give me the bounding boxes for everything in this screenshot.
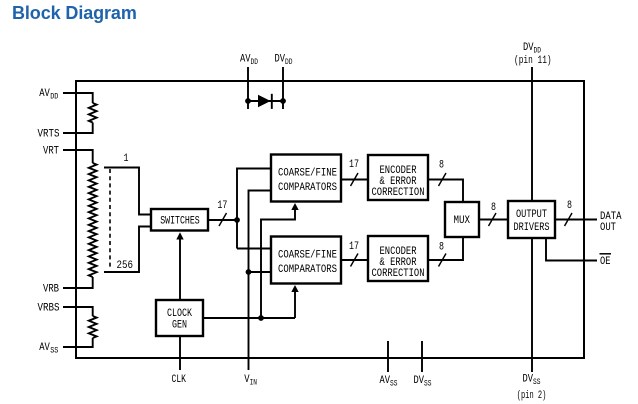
svg-text:COARSE/FINE: COARSE/FINE (278, 250, 337, 262)
svg-text:IN: IN (250, 379, 258, 388)
svg-text:VRT: VRT (43, 146, 59, 158)
chip outline (76, 81, 584, 358)
encoder U5 (368, 155, 428, 200)
arrow clock comp2 (291, 285, 298, 292)
svg-text:8: 8 (567, 200, 572, 212)
svg-text:VRTS: VRTS (38, 129, 60, 141)
bus slash 17 (219, 213, 227, 226)
wire clock to comparator1 (261, 208, 295, 318)
wire VIN to comparator2 (249, 271, 272, 273)
svg-text:OUT: OUT (600, 222, 616, 234)
bus slash 17a (351, 173, 359, 186)
node dot AVDD (245, 98, 251, 104)
wire AVSS pin (63, 338, 93, 347)
svg-text:CLK: CLK (172, 374, 187, 386)
wire comp2 to encoder2 (341, 259, 368, 261)
node junction dot VIN (246, 269, 252, 275)
resistor ladder (VRT-VRB) (89, 163, 97, 277)
svg-text:AV: AV (240, 54, 251, 66)
svg-text:COMPARATORS: COMPARATORS (278, 182, 337, 194)
svg-text:Block Diagram: Block Diagram (12, 3, 137, 23)
wire OE (546, 238, 597, 261)
bus slash 8d (565, 213, 573, 226)
svg-text:17: 17 (349, 159, 359, 171)
svg-text:DD: DD (285, 58, 293, 67)
svg-text:SS: SS (390, 380, 398, 389)
wire encoder1 to mux (428, 180, 463, 203)
resistor RB (VRBS-AVSS) (89, 316, 97, 338)
arrow clockgen to switches (179, 237, 181, 300)
svg-text:DV: DV (414, 375, 425, 387)
resistor RT (AVDD-VRTS) (89, 103, 97, 123)
svg-text:(pin 2): (pin 2) (517, 390, 547, 402)
comparator U4 (271, 237, 341, 284)
svg-text:VRB: VRB (43, 284, 59, 296)
wire ladder tap bottom (104, 227, 151, 273)
svg-text:AV: AV (39, 342, 50, 354)
pin CLK wire (179, 336, 181, 370)
svg-text:DV: DV (523, 374, 534, 386)
svg-text:DD: DD (251, 58, 259, 67)
wire mux to output drivers (479, 219, 508, 221)
node junction dot clock (258, 315, 264, 321)
svg-text:256: 256 (117, 260, 134, 272)
wire ref bus to comparators (237, 169, 271, 249)
svg-text:17: 17 (217, 200, 227, 212)
pin DVDD top stub (282, 67, 284, 109)
wire VRT pin (63, 150, 93, 163)
svg-text:CLOCK: CLOCK (167, 308, 192, 320)
svg-text:COMPARATORS: COMPARATORS (278, 264, 337, 276)
wire clock distribution (203, 317, 295, 319)
wire switches bus out (208, 219, 237, 221)
wire AVDD pin (63, 93, 93, 103)
wire data out (555, 219, 597, 221)
clock gen U2 (156, 300, 203, 336)
pin AVSS bottom stub (387, 341, 389, 372)
svg-text:DV: DV (523, 42, 534, 54)
pin AVDD top stub (247, 67, 249, 109)
wire dashed ladder span (109, 169, 111, 267)
wire VRTS pin (63, 123, 93, 134)
svg-text:AV: AV (39, 88, 50, 100)
wire DVDD pin11 (531, 67, 533, 201)
node junction dot A (234, 217, 240, 223)
wire encoder2 to mux (428, 237, 463, 260)
svg-text:DV: DV (275, 54, 286, 66)
pin DVSS bottom stub (421, 341, 423, 372)
encoder U6 (368, 236, 428, 281)
wire ladder tap top (104, 168, 151, 215)
bus slash 8b (439, 254, 447, 267)
svg-text:SS: SS (533, 378, 541, 387)
svg-text:GEN: GEN (172, 320, 187, 332)
svg-text:OE: OE (600, 256, 611, 268)
svg-text:OUTPUT: OUTPUT (516, 209, 547, 221)
svg-text:17: 17 (349, 241, 359, 253)
node dot DVDD (280, 98, 286, 104)
svg-text:SS: SS (50, 347, 58, 356)
wire VRBS pin (63, 307, 93, 316)
svg-text:CORRECTION: CORRECTION (372, 187, 425, 199)
bus slash 8a (439, 173, 447, 186)
svg-text:SS: SS (424, 380, 432, 389)
svg-text:(pin 11): (pin 11) (514, 55, 552, 67)
pin VIN wire (249, 191, 272, 371)
switches U1 (151, 209, 208, 231)
bus slash 8c (489, 213, 497, 226)
svg-text:MUX: MUX (454, 215, 471, 227)
comparator U3 (271, 155, 341, 202)
wire diode row (248, 100, 283, 102)
arrow clock comp1 (291, 203, 298, 210)
output drivers U8 (508, 201, 555, 238)
mux U7 (445, 202, 479, 237)
wire clock to comparator2 (294, 290, 296, 318)
svg-text:8: 8 (439, 160, 444, 172)
wire VRB pin (63, 277, 93, 288)
bus slash 17b (351, 254, 359, 267)
wire DVSS pin2 (531, 238, 533, 372)
svg-text:8: 8 (439, 242, 444, 254)
svg-text:1: 1 (124, 153, 129, 165)
svg-text:VRBS: VRBS (38, 303, 60, 315)
diode D1 (258, 95, 271, 108)
svg-text:CORRECTION: CORRECTION (372, 268, 425, 280)
wire comp1 to encoder1 (341, 179, 368, 181)
svg-text:DD: DD (50, 93, 58, 102)
svg-text:8: 8 (491, 202, 496, 214)
svg-text:SWITCHES: SWITCHES (160, 215, 200, 227)
svg-text:AV: AV (380, 375, 391, 387)
svg-text:COARSE/FINE: COARSE/FINE (278, 168, 337, 180)
svg-text:DRIVERS: DRIVERS (514, 222, 550, 234)
